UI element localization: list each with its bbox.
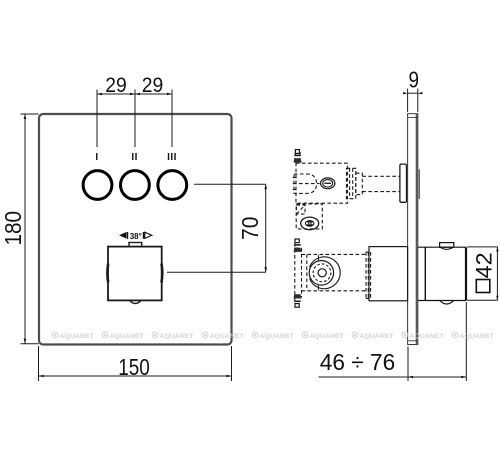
svg-text:AQUANET: AQUANET <box>260 333 295 340</box>
svg-text:29: 29 <box>142 74 164 97</box>
svg-text:AQUANET: AQUANET <box>410 333 445 340</box>
svg-text:III: III <box>167 152 177 163</box>
svg-text:AQUANET: AQUANET <box>60 333 95 340</box>
svg-text:II: II <box>131 152 138 163</box>
svg-text:AQUANET: AQUANET <box>460 333 495 340</box>
svg-text:I: I <box>95 152 98 163</box>
svg-text:AQUANET: AQUANET <box>110 333 145 340</box>
svg-text:29: 29 <box>105 74 127 97</box>
svg-text:150: 150 <box>118 354 150 380</box>
svg-text:9: 9 <box>409 67 420 93</box>
svg-text:38°: 38° <box>130 232 142 241</box>
svg-text:AQUANET: AQUANET <box>360 333 395 340</box>
svg-text:42: 42 <box>471 252 496 278</box>
svg-text:46 ÷ 76: 46 ÷ 76 <box>320 349 396 375</box>
svg-text:AQUANET: AQUANET <box>210 333 245 340</box>
svg-text:AQUANET: AQUANET <box>310 333 345 340</box>
svg-text:180: 180 <box>0 211 26 246</box>
svg-text:70: 70 <box>237 216 263 240</box>
svg-text:AQUANET: AQUANET <box>160 333 195 340</box>
